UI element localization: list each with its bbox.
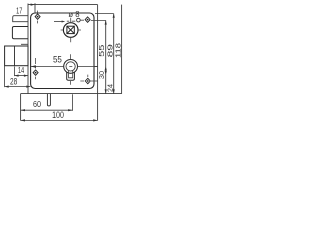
diamond top-left centerline xyxy=(37,11,39,24)
faceplate top tab xyxy=(13,16,28,22)
right vertical dim line 1 (inner) xyxy=(97,5,99,121)
screw diamond top-left xyxy=(35,14,40,19)
deadbolt head inner line xyxy=(14,46,16,66)
cylinder screw slot below body xyxy=(47,94,50,106)
follower centerline vertical xyxy=(70,18,72,43)
right vertical dim line 4 (outer) xyxy=(121,5,123,94)
top dimension line xyxy=(28,4,98,6)
top-right diamond centerline dashes xyxy=(67,20,84,21)
dim line 14 xyxy=(15,75,29,77)
svg-text:ø 8: ø 8 xyxy=(68,9,80,19)
follower square diagonals xyxy=(67,26,74,33)
dim line 60 xyxy=(21,109,73,111)
left extension for bottom dims xyxy=(20,94,22,121)
extension from bottom-right diamond to dim lines xyxy=(91,80,98,82)
follower centerline horizontal xyxy=(61,29,81,31)
baseline under body xyxy=(21,93,122,95)
cylinder centerline vertical xyxy=(70,54,72,85)
dim line 28 xyxy=(5,86,31,88)
arrow to follower left xyxy=(54,21,62,23)
backset dim line 55 xyxy=(31,66,98,68)
backset left arrowhead xyxy=(31,65,36,67)
small hole circle under ø8 xyxy=(77,18,81,22)
svg-text:118: 118 xyxy=(113,43,122,58)
latch step line xyxy=(21,43,28,45)
svg-text:100: 100 xyxy=(52,110,64,120)
svg-text:30: 30 xyxy=(99,71,106,79)
right vertical dim line 3 xyxy=(113,14,115,94)
svg-text:17: 17 xyxy=(16,6,23,15)
extension body top to dim 3 xyxy=(95,13,114,15)
screw diamond top-right xyxy=(85,17,90,22)
dim line 100 xyxy=(21,119,98,121)
right vertical dim line 2 xyxy=(105,20,107,93)
cylinder outer circle xyxy=(64,60,78,74)
diamond bottom-right centerlines xyxy=(80,75,88,81)
svg-text:14: 14 xyxy=(18,66,25,75)
ext line at 60 xyxy=(72,94,74,111)
top extension line at body corner xyxy=(34,3,36,13)
cylinder inner stem xyxy=(69,71,73,78)
deadbolt xyxy=(5,46,28,66)
follower circle xyxy=(63,23,78,38)
cylinder axis extension to right dims xyxy=(94,66,97,68)
svg-text:55: 55 xyxy=(53,53,62,64)
svg-text:28: 28 xyxy=(10,76,17,86)
svg-text:60: 60 xyxy=(33,99,41,109)
screw diamond bottom-left xyxy=(33,70,38,75)
top dimension arrowhead xyxy=(31,4,35,6)
svg-text:24: 24 xyxy=(108,84,115,92)
faceplate front edge xyxy=(27,4,29,94)
lock body outline xyxy=(31,13,94,89)
dim ext line from deadbolt inner xyxy=(14,67,16,77)
screw diamond bottom-right xyxy=(85,78,90,83)
follower square 8mm xyxy=(67,26,74,33)
latch bolt xyxy=(12,27,28,39)
diamond bottom-left centerline xyxy=(35,58,37,79)
cylinder outer stem xyxy=(67,72,75,80)
cylinder inner circle xyxy=(66,62,75,71)
extension from top-right diamond to dim line xyxy=(91,19,106,21)
dim ext deadbolt left down xyxy=(4,66,6,87)
